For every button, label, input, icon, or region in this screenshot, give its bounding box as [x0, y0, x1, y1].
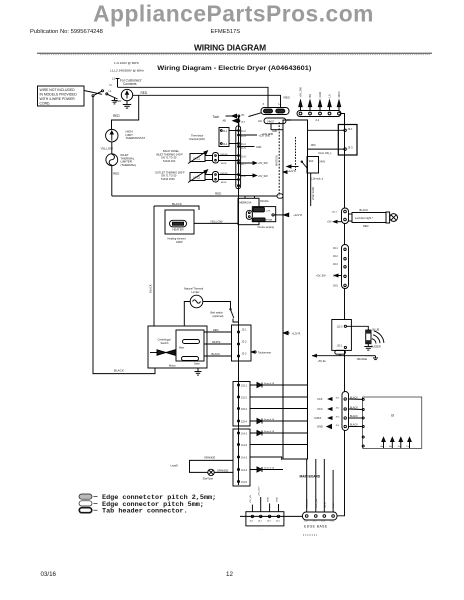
- svg-text:BUZZER: BUZZER: [371, 345, 381, 348]
- svg-text:J14-5: J14-5: [241, 481, 248, 484]
- svg-text:MERKOSA: MERKOSA: [240, 202, 252, 205]
- svg-text:MAIN BOARD: MAIN BOARD: [300, 475, 321, 479]
- svg-text:J14-4: J14-4: [241, 469, 248, 472]
- svg-text:+5V_SW: +5V_SW: [258, 175, 268, 178]
- svg-text:AB: AB: [223, 120, 227, 123]
- svg-text:03/16: 03/16: [41, 571, 57, 578]
- svg-text:Start: Start: [194, 362, 200, 366]
- svg-text:ORANGE: ORANGE: [357, 358, 368, 361]
- svg-text:EFME517S: EFME517S: [211, 29, 241, 35]
- svg-text:J9.2: J9.2: [336, 408, 341, 410]
- svg-text:J15-2: J15-2: [241, 396, 248, 399]
- svg-text:IN MODELS PROVIDED: IN MODELS PROVIDED: [40, 93, 78, 97]
- svg-text:CORD.: CORD.: [40, 102, 51, 106]
- svg-text:L1: L1: [279, 102, 283, 106]
- svg-text:J8-3: J8-3: [333, 263, 338, 266]
- svg-text:AppliancePartsPros.com: AppliancePartsPros.com: [93, 0, 374, 26]
- svg-text:J14-1: J14-1: [241, 432, 248, 435]
- svg-text:Tachometer: Tachometer: [258, 351, 271, 354]
- svg-text:Drum lt 16: Drum lt 16: [264, 418, 275, 421]
- svg-text:+12V R.: +12V R.: [292, 332, 302, 336]
- svg-text:LN: LN: [328, 94, 332, 97]
- svg-text:Natural Thermal: Natural Thermal: [184, 286, 204, 290]
- svg-text:J3-1: J3-1: [348, 127, 354, 131]
- svg-text:BK/W: BK/W: [221, 163, 226, 165]
- svg-text:+12V R: +12V R: [293, 213, 302, 217]
- svg-text:J1-2: J1-2: [241, 130, 246, 133]
- svg-text:GN: GN: [258, 120, 262, 123]
- svg-text:J10.1: J10.1: [332, 211, 338, 213]
- svg-text:HEATER: HEATER: [173, 227, 184, 231]
- svg-text:RED: RED: [141, 91, 148, 95]
- svg-text:J15-1: J15-1: [241, 384, 248, 387]
- svg-text:Connects: Connects: [123, 82, 137, 86]
- svg-text:J12-1: J12-1: [337, 344, 344, 347]
- svg-text:BLACK: BLACK: [149, 284, 153, 293]
- svg-text:J7-5: J7-5: [330, 521, 335, 523]
- svg-text:J8-1: J8-1: [333, 247, 338, 250]
- svg-text:RED: RED: [363, 224, 369, 228]
- svg-text:X: X: [263, 102, 265, 106]
- svg-text:J14-3: J14-3: [241, 456, 248, 459]
- svg-text:Interlock(120): Interlock(120): [189, 137, 205, 141]
- svg-text:EVMA: EVMA: [266, 218, 273, 221]
- svg-text:GND: GND: [333, 503, 335, 508]
- svg-text:+5V_OUT: +5V_OUT: [259, 486, 261, 496]
- svg-text:240V: 240V: [319, 161, 325, 164]
- svg-text:NTC2: NTC2: [194, 176, 201, 179]
- svg-text:WIRE NOT INCLUDED: WIRE NOT INCLUDED: [40, 88, 76, 92]
- svg-text:+12V D.: +12V D.: [288, 170, 297, 173]
- svg-text:12: 12: [226, 571, 233, 578]
- svg-text:. . . .: . . . .: [259, 528, 264, 531]
- svg-text:(optional): (optional): [213, 314, 224, 318]
- svg-text:J6.1: J6.1: [250, 520, 255, 522]
- svg-text:WITH 4-WIRE POWER: WITH 4-WIRE POWER: [40, 97, 76, 101]
- svg-text:Belt switch: Belt switch: [211, 311, 224, 315]
- svg-text:+5V 9a: +5V 9a: [318, 360, 327, 363]
- svg-text:J1-3: J1-3: [241, 135, 246, 138]
- svg-text:J7-3: J7-3: [313, 521, 318, 523]
- svg-text:J9.3: J9.3: [336, 417, 341, 419]
- svg-text:BLACK: BLACK: [350, 407, 358, 410]
- svg-text:30wTube: 30wTube: [203, 476, 214, 480]
- svg-text:J1-5: J1-5: [241, 147, 246, 150]
- svg-text:240W: 240W: [176, 241, 183, 244]
- svg-text:J14-2: J14-2: [241, 444, 248, 447]
- svg-text:GND: GND: [317, 425, 323, 429]
- svg-text:J9.4: J9.4: [336, 425, 341, 427]
- svg-text:BLACK: BLACK: [350, 424, 358, 427]
- svg-text:+5 FL: +5 FL: [265, 210, 271, 212]
- svg-text:YELLOW: YELLOW: [101, 147, 114, 151]
- svg-text:J7-4: J7-4: [321, 521, 326, 523]
- svg-text:RED: RED: [113, 172, 120, 176]
- svg-text:WHITE: WHITE: [212, 340, 221, 344]
- svg-text:WIRING DIAGRAM: WIRING DIAGRAM: [194, 43, 266, 53]
- svg-text:DATA: DATA: [323, 502, 326, 508]
- svg-text:J8-5: J8-5: [333, 285, 338, 288]
- svg-text:Publication No: 5995674248: Publication No: 5995674248: [30, 29, 103, 35]
- svg-text:J3-3: J3-3: [348, 146, 354, 150]
- svg-text:2-1: 2-1: [316, 118, 320, 122]
- svg-text:Wiring Diagram - Electric Drye: Wiring Diagram - Electric Dryer (A046436…: [157, 65, 311, 72]
- svg-text:(THERMAL): (THERMAL): [121, 163, 137, 167]
- svg-text:J1-6: J1-6: [241, 156, 246, 159]
- svg-text:J4M: J4M: [311, 143, 316, 147]
- svg-text:GND: GND: [256, 146, 262, 149]
- svg-text:BLACK: BLACK: [350, 397, 358, 400]
- svg-text:J6.4: J6.4: [276, 520, 281, 522]
- svg-text:Lead3: Lead3: [171, 463, 179, 467]
- svg-text:RED: RED: [284, 95, 291, 99]
- svg-text:GND: GND: [267, 497, 269, 502]
- svg-text:BLACK: BLACK: [350, 415, 358, 418]
- svg-text:51344 262: 51344 262: [163, 159, 176, 163]
- svg-text:RED: RED: [113, 114, 120, 118]
- svg-text:WHITE/NL: WHITE/NL: [276, 154, 279, 166]
- svg-text:THERMOSTAT: THERMOSTAT: [126, 136, 146, 140]
- svg-text:BK: BK: [308, 94, 312, 98]
- svg-text:UI: UI: [391, 414, 394, 418]
- svg-text:Tab header connector.: Tab header connector.: [102, 508, 188, 516]
- svg-text:GN: GN: [287, 119, 291, 122]
- svg-text:N: N: [110, 83, 112, 87]
- svg-text:L1a-sub_s: L1a-sub_s: [311, 177, 324, 181]
- svg-text:J2-3: J2-3: [242, 352, 247, 355]
- svg-text:BLACK: BLACK: [114, 369, 124, 373]
- svg-text:GND: GND: [276, 497, 278, 502]
- svg-text:L1: L1: [112, 77, 116, 81]
- svg-text:YELLOW: YELLOW: [210, 219, 223, 223]
- svg-text:+5V_SW: +5V_SW: [258, 162, 268, 165]
- svg-text:EDGE BASE: EDGE BASE: [304, 524, 328, 528]
- svg-text:Limiter: Limiter: [192, 290, 200, 294]
- svg-text:BLACK: BLACK: [360, 208, 369, 212]
- svg-text:J2-2: J2-2: [242, 340, 247, 343]
- svg-text:Device sensing: Device sensing: [258, 226, 275, 229]
- svg-text:J1-4: J1-4: [241, 143, 246, 146]
- svg-text:Drum lt 16: Drum lt 16: [264, 467, 275, 470]
- svg-text:Main: Main: [179, 347, 185, 350]
- svg-text:J4M17: J4M17: [267, 121, 275, 124]
- svg-text:L1,L2 240/208V @ 60Hz: L1,L2 240/208V @ 60Hz: [110, 68, 144, 72]
- svg-text:Door OR_s: Door OR_s: [319, 151, 333, 155]
- svg-text:GND: GND: [318, 92, 322, 98]
- svg-text:BLACK: BLACK: [212, 352, 221, 356]
- svg-text:Drum lt 16: Drum lt 16: [264, 430, 275, 433]
- svg-text:Led door light *: Led door light *: [355, 216, 373, 220]
- svg-text:+5V_LN: +5V_LN: [250, 495, 252, 503]
- svg-text:Tach: Tach: [213, 115, 220, 119]
- svg-text:+5V_SW: +5V_SW: [299, 87, 303, 98]
- svg-text:DATA: DATA: [315, 416, 322, 420]
- svg-text:90A: 90A: [309, 160, 314, 163]
- svg-text:NTC1: NTC1: [194, 157, 201, 160]
- svg-text:J9.1: J9.1: [336, 398, 341, 400]
- svg-text:Drum lt 16: Drum lt 16: [264, 382, 275, 385]
- svg-text:BLACK: BLACK: [172, 202, 182, 206]
- svg-text:J12-2: J12-2: [337, 325, 344, 328]
- svg-text:J8-2: J8-2: [333, 255, 338, 258]
- svg-text:J15-4: J15-4: [241, 420, 248, 423]
- svg-text:GND: GND: [115, 99, 121, 103]
- svg-text:VCK: VCK: [317, 397, 323, 401]
- svg-text:J1-7: J1-7: [241, 163, 246, 166]
- svg-text:J6.3: J6.3: [267, 520, 272, 522]
- svg-text:VCC: VCC: [317, 407, 323, 411]
- svg-text:+5V_SW: +5V_SW: [316, 275, 326, 278]
- svg-text:ORANGE: ORANGE: [217, 468, 229, 472]
- svg-text:J2-1: J2-1: [242, 328, 247, 331]
- svg-text:BK/W: BK/W: [221, 182, 226, 184]
- svg-text:1.N 120V @ 60Hz: 1.N 120V @ 60Hz: [114, 61, 139, 65]
- svg-text:J7-2: J7-2: [304, 521, 309, 523]
- svg-text:+5V: +5V: [327, 221, 332, 224]
- svg-text:J8-4: J8-4: [333, 275, 338, 278]
- svg-text:LINE SAFE: LINE SAFE: [311, 186, 315, 200]
- svg-text:ORANGE: ORANGE: [204, 455, 216, 459]
- svg-text:J4-1: J4-1: [223, 130, 228, 133]
- svg-text:RED: RED: [213, 328, 219, 332]
- svg-text:51344 2646: 51344 2646: [161, 177, 175, 181]
- svg-text:J15-3: J15-3: [241, 408, 248, 411]
- svg-text:J4-4: J4-4: [223, 143, 228, 146]
- svg-text:+12V GND: +12V GND: [262, 133, 274, 136]
- svg-text:Thermistor: Thermistor: [191, 133, 204, 137]
- svg-text:VCK_SW: VCK_SW: [307, 498, 309, 508]
- svg-text:J5/110A: J5/110A: [260, 200, 269, 203]
- svg-text:VCC_SW: VCC_SW: [316, 498, 318, 508]
- svg-text:J6.2: J6.2: [258, 520, 263, 522]
- svg-text:Centrifugal: Centrifugal: [158, 338, 171, 342]
- svg-text:Motor: Motor: [169, 364, 176, 368]
- svg-text:RED/W: RED/W: [221, 154, 228, 156]
- svg-text:BLUE: BLUE: [373, 328, 380, 332]
- svg-text:J1-8: J1-8: [241, 175, 246, 178]
- svg-text:P.7: P.7: [242, 121, 246, 124]
- svg-text:230V: 230V: [337, 91, 341, 97]
- svg-text:RED/W: RED/W: [221, 173, 228, 175]
- svg-text:P1: P1: [242, 114, 246, 117]
- svg-text:L1: L1: [109, 89, 112, 93]
- svg-text:RED: RED: [215, 192, 222, 196]
- svg-text:Switch: Switch: [161, 341, 169, 345]
